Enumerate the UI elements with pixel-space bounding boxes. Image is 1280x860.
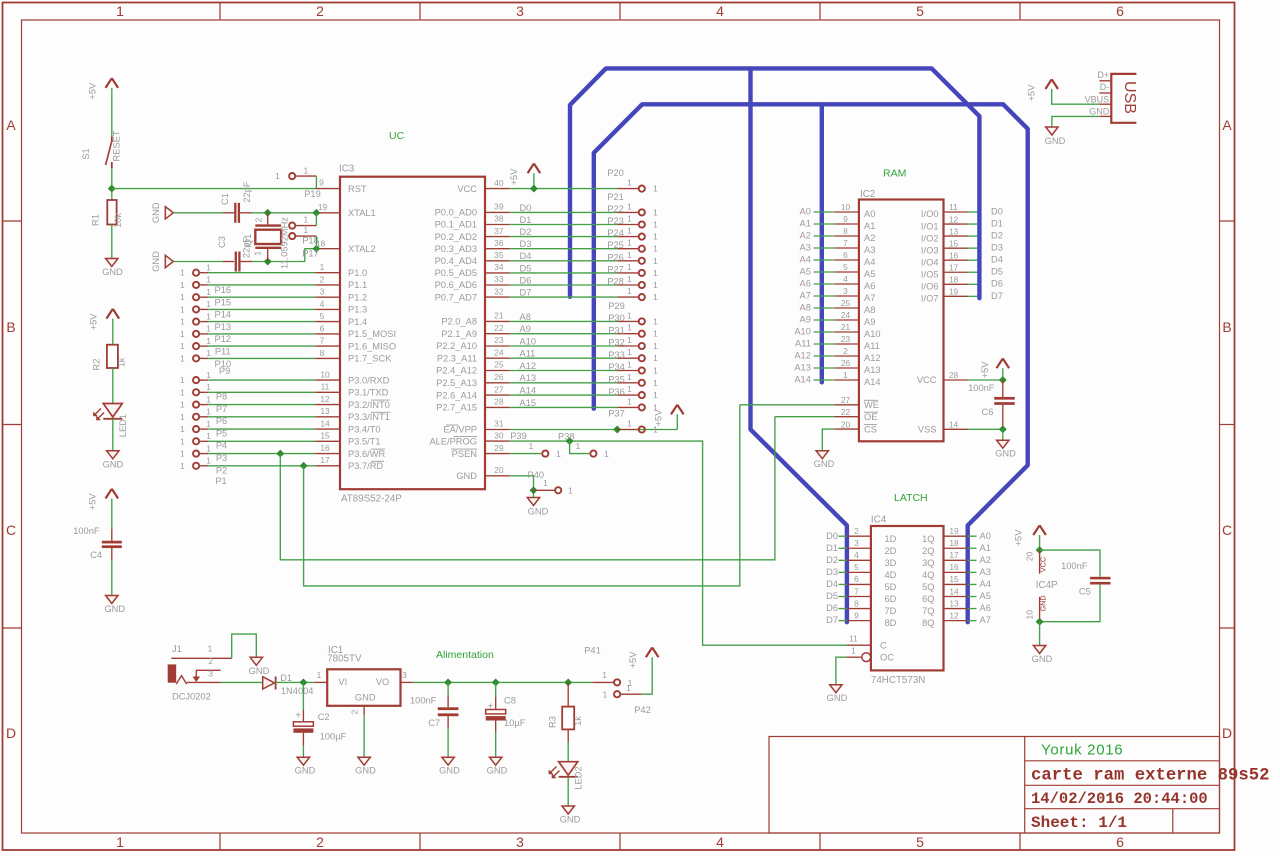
svg-text:+: + [487,701,493,712]
ram IC2 box [859,200,944,442]
svg-text:2: 2 [350,709,360,714]
svg-text:14: 14 [949,420,959,430]
svg-text:P1.5_MOSI: P1.5_MOSI [348,329,396,339]
svg-text:14: 14 [320,419,330,429]
svg-text:19: 19 [318,202,328,212]
svg-text:12: 12 [949,214,959,224]
power +5V arrow on VCC net [509,164,540,186]
svg-text:A12: A12 [520,361,537,371]
svg-text:P3.3/INT1: P3.3/INT1 [348,412,390,422]
diode D1 1N4004 [263,673,314,696]
svg-text:28: 28 [494,397,504,407]
IC3 value label AT89S52-24P [341,494,402,505]
svg-text:1: 1 [180,353,185,363]
svg-text:40: 40 [494,178,504,188]
junction ALE pad P38 branch [566,437,574,445]
svg-text:IC4: IC4 [871,515,887,526]
svg-text:P1.3: P1.3 [348,305,367,315]
svg-text:1: 1 [627,310,632,320]
IC3 pins 10-17 P3 stubs [316,370,341,466]
svg-text:I/O4: I/O4 [921,257,939,267]
svg-text:3: 3 [854,538,859,548]
svg-text:1D: 1D [885,534,897,544]
ground below IC4P [1032,646,1053,665]
svg-text:1: 1 [627,323,632,333]
svg-text:1: 1 [206,336,211,346]
svg-text:16: 16 [320,443,330,453]
svg-text:21: 21 [494,311,504,321]
svg-text:D: D [1222,725,1232,741]
svg-text:P2.7_A15: P2.7_A15 [436,403,477,413]
svg-text:1: 1 [653,316,658,326]
svg-text:P25: P25 [607,240,624,250]
LED1 [93,404,128,438]
svg-text:P2.5_A13: P2.5_A13 [436,378,477,388]
svg-text:A7: A7 [980,615,991,625]
svg-text:P0.3_AD3: P0.3_AD3 [435,244,477,254]
svg-text:20: 20 [841,419,851,429]
svg-text:GND: GND [151,202,161,223]
address bus branch to RAM A pins [820,104,824,382]
resistor R3 1k [548,682,583,761]
title block date [1031,790,1208,808]
svg-text:100nF: 100nF [968,383,995,393]
svg-text:A12: A12 [864,353,881,363]
svg-text:1: 1 [116,834,124,850]
svg-text:1: 1 [627,214,632,224]
op IC3 box AT89S52 [340,177,485,490]
svg-text:100nF: 100nF [1061,561,1088,571]
svg-text:1: 1 [206,263,211,273]
svg-text:A14: A14 [864,377,881,387]
wire RST to IC3 [112,188,316,190]
svg-text:A9: A9 [864,317,875,327]
pad P18 with wire to XTAL1 [289,213,319,246]
title block document name carte ram externe 89s52 [1031,767,1270,786]
svg-text:D4: D4 [826,579,838,589]
ground arrow left of C3 [151,251,174,272]
svg-text:P0.1_AD1: P0.1_AD1 [435,220,477,230]
IC4P label [1036,580,1058,591]
svg-text:VSS: VSS [918,425,937,435]
svg-text:1: 1 [627,286,632,296]
usb pin D- [1099,82,1111,93]
svg-text:2: 2 [254,217,264,222]
svg-text:1: 1 [851,646,856,656]
svg-text:1: 1 [180,341,185,351]
svg-text:P1.1: P1.1 [348,280,367,290]
RAM data pins I/O0-I/O7 with wires to bus [921,202,1003,303]
svg-text:GND: GND [355,692,376,702]
svg-text:RESET: RESET [112,130,122,161]
svg-text:P1.0: P1.0 [348,268,367,278]
svg-text:1: 1 [653,207,658,217]
svg-text:15: 15 [949,574,959,584]
svg-text:1: 1 [602,670,607,680]
svg-text:1: 1 [627,178,632,188]
svg-text:DCJ0202: DCJ0202 [172,691,211,701]
svg-text:GND: GND [355,766,376,776]
latch output pins 1Q-8Q with A bus wires [922,526,991,628]
svg-text:P2.2_A10: P2.2_A10 [436,341,477,351]
svg-text:GND: GND [151,251,161,272]
svg-text:10: 10 [1024,610,1034,620]
svg-text:15: 15 [320,431,330,441]
svg-text:A3: A3 [800,242,811,252]
svg-text:I/O5: I/O5 [921,269,939,279]
junction on P3.7/RD wire [300,462,308,470]
wire GND to C1 [173,212,223,214]
svg-text:3: 3 [208,668,213,678]
wire C4 to GND [111,548,113,596]
svg-text:D4: D4 [520,251,532,261]
svg-text:1: 1 [180,400,185,410]
section label Alimentation [436,649,494,661]
svg-text:A8: A8 [800,302,811,312]
svg-text:26: 26 [494,372,504,382]
svg-text:GND: GND [827,693,848,703]
svg-text:D1: D1 [991,218,1003,228]
svg-text:1: 1 [180,424,185,434]
svg-text:35: 35 [494,250,504,260]
svg-text:5: 5 [916,3,924,19]
svg-text:A11: A11 [795,338,811,348]
section label UC [389,130,405,142]
svg-text:29: 29 [494,443,504,453]
IC3 left pin names [348,184,396,471]
ground below C4 [104,596,125,615]
svg-text:6: 6 [854,574,859,584]
regulator IC1 7805TV [315,645,413,715]
svg-text:A13: A13 [864,365,881,375]
svg-text:D1: D1 [280,673,292,683]
wire EA to +5V [510,429,678,431]
svg-text:D3: D3 [520,239,532,249]
svg-text:36: 36 [494,238,504,248]
svg-text:7: 7 [320,336,325,346]
svg-text:P32: P32 [608,338,625,348]
resistor R1 10k [91,200,124,228]
svg-text:21: 21 [841,322,851,332]
ground below latch OC [827,685,848,704]
svg-text:GND: GND [1038,595,1047,611]
svg-text:CS: CS [864,424,877,434]
pad P20 [607,168,658,194]
svg-text:P0.4_AD4: P0.4_AD4 [435,256,477,266]
svg-text:P38: P38 [558,432,575,442]
svg-text:GND: GND [560,815,581,825]
svg-text:P7: P7 [216,404,227,414]
svg-text:1: 1 [180,292,185,302]
svg-text:38: 38 [494,214,504,224]
ground below IC1 [355,757,376,776]
svg-text:J1: J1 [172,644,182,654]
svg-text:1: 1 [206,275,211,285]
svg-text:A: A [6,117,16,133]
wire D1 to IC1 VI [276,681,315,683]
svg-text:A13: A13 [794,362,811,372]
ground below LED1 [103,451,124,470]
svg-text:31: 31 [494,419,504,429]
svg-text:XTAL1: XTAL1 [348,208,376,218]
svg-text:GND: GND [1045,136,1066,146]
svg-text:P1: P1 [215,476,226,486]
wire R2 to LED1 [112,368,114,404]
ground below C2 [295,757,316,776]
svg-text:1: 1 [627,262,632,272]
wire +5V arrow to VCC wire [533,173,535,188]
IC3 right pin stubs with numbers [485,178,510,476]
capacitor C2 100uF [293,682,346,757]
svg-text:+5V: +5V [1026,84,1036,102]
svg-text:C: C [880,641,887,651]
svg-text:1: 1 [653,366,658,376]
power +5V arrow above C4 [87,489,118,510]
svg-text:22pF: 22pF [242,181,252,203]
svg-text:1: 1 [626,683,631,693]
svg-text:WE: WE [864,400,879,410]
switch S1 RESET [81,130,122,168]
svg-text:1: 1 [206,394,211,404]
svg-text:1: 1 [653,232,658,242]
IC4 value label 74HCT573N [871,675,925,686]
svg-text:D0: D0 [520,203,532,213]
header pads P1-P16 with wires to IC3 P1/P3 pins [180,263,315,471]
svg-text:3D: 3D [885,558,897,568]
svg-text:P3.0/RXD: P3.0/RXD [348,375,390,385]
svg-text:+: + [295,710,301,721]
svg-text:25: 25 [841,298,851,308]
svg-text:6: 6 [843,250,848,260]
svg-text:C5: C5 [1079,587,1091,597]
svg-text:7: 7 [843,238,848,248]
svg-text:14/02/2016 20:44:00: 14/02/2016 20:44:00 [1031,790,1208,808]
svg-text:P1.4: P1.4 [348,317,367,327]
svg-text:1: 1 [180,268,185,278]
RAM address pins A0-A14 with wires to bus [794,202,880,387]
svg-text:24: 24 [841,310,851,320]
svg-text:20: 20 [1024,552,1034,562]
svg-text:S1: S1 [81,148,91,159]
svg-text:P35: P35 [608,375,625,385]
svg-text:D7: D7 [991,291,1003,301]
svg-text:A2: A2 [800,230,811,240]
svg-text:4: 4 [716,834,724,850]
IC3 right pin names [429,184,477,481]
svg-text:P16: P16 [215,285,232,295]
svg-text:26: 26 [841,358,851,368]
svg-text:1: 1 [653,244,658,254]
svg-text:A4: A4 [800,254,811,264]
IC3 name label [339,164,355,175]
svg-text:P11: P11 [215,347,231,357]
svg-text:11: 11 [849,634,858,644]
capacitor C3 22pF [217,236,252,271]
svg-text:6: 6 [320,323,325,333]
svg-text:VBUS: VBUS [1085,94,1110,104]
svg-text:5: 5 [320,311,325,321]
svg-text:4: 4 [854,550,859,560]
svg-text:D5: D5 [826,591,838,601]
svg-text:1: 1 [180,304,185,314]
svg-text:9: 9 [319,178,324,188]
svg-text:9: 9 [843,214,848,224]
svg-text:6Q: 6Q [922,594,934,604]
svg-text:USB: USB [1121,81,1138,114]
svg-text:1: 1 [627,238,632,248]
junction EA pad P37 [613,426,621,434]
power +5V arrow above S1 [87,78,118,99]
svg-text:P37: P37 [608,409,625,419]
svg-text:1: 1 [604,449,609,459]
svg-text:8Q: 8Q [922,618,934,628]
svg-text:GND: GND [456,471,477,481]
svg-text:Alimentation: Alimentation [436,649,494,661]
svg-text:1: 1 [627,201,632,211]
resistor R2 1k [92,345,127,371]
svg-text:1: 1 [206,431,211,441]
svg-text:+5V: +5V [87,82,97,100]
ground below LED2 [560,806,581,825]
svg-text:A10: A10 [520,336,537,346]
svg-text:GND: GND [249,666,270,676]
svg-text:OE: OE [864,412,877,422]
wire +5V to VBUS [1052,89,1100,104]
wire LED2 to GND [567,777,569,806]
wire PSEN to pad P39 [510,453,541,455]
svg-text:P23: P23 [607,216,624,226]
svg-text:2: 2 [854,526,859,536]
svg-text:A2: A2 [980,555,991,565]
ground arrow left of C1 [151,202,174,223]
svg-text:P3.6/WR: P3.6/WR [348,449,385,459]
svg-text:LED2: LED2 [573,766,583,789]
svg-text:12: 12 [949,610,959,620]
svg-text:23: 23 [841,334,851,344]
svg-text:1: 1 [206,419,211,429]
svg-text:OC: OC [880,653,894,663]
svg-text:2: 2 [316,3,324,19]
svg-text:8D: 8D [885,618,897,628]
ground below IC3 GND pin [527,498,548,517]
svg-text:I/O0: I/O0 [921,209,939,219]
svg-text:1: 1 [653,378,658,388]
svg-text:P3.7/RD: P3.7/RD [348,461,383,471]
ground below C8 [487,757,508,776]
ground below USB [1045,127,1066,146]
RAM VCC pin 28 [917,370,1003,385]
capacitor C7 100nF [410,682,458,757]
junction GND pad P40 branch [530,486,538,494]
junction pad P18 drop on XTAL1 [312,209,320,217]
svg-text:23: 23 [494,335,504,345]
svg-text:A14: A14 [794,374,811,384]
svg-text:P0.7_AD7: P0.7_AD7 [435,292,477,302]
svg-text:1: 1 [627,396,632,406]
RAM CS pin 20 [822,419,877,450]
svg-text:6: 6 [1116,834,1124,850]
pad P39 [510,431,561,459]
title block sheet [1031,814,1127,832]
svg-text:1: 1 [653,220,658,230]
svg-text:A5: A5 [864,269,875,279]
svg-text:VI: VI [338,677,347,687]
capacitor C8 10uF [486,682,526,757]
IC3 pins 1-8 P1 stubs [316,262,341,358]
svg-text:P30: P30 [608,313,625,323]
svg-text:I/O7: I/O7 [921,294,939,304]
svg-text:10k: 10k [113,213,123,228]
svg-text:27: 27 [841,395,851,405]
svg-text:5: 5 [843,262,848,272]
svg-text:4Q: 4Q [922,570,934,580]
junction VCC +5V [530,185,538,193]
svg-text:A12: A12 [794,350,811,360]
svg-text:5D: 5D [885,582,897,592]
svg-text:1: 1 [116,3,124,19]
ground below RAM VSS [995,440,1016,459]
svg-text:P27: P27 [607,264,624,274]
svg-text:14: 14 [949,586,959,596]
svg-text:1: 1 [206,370,211,380]
svg-text:GND: GND [103,459,124,469]
wire WR to RAM OE [280,417,775,560]
junction rail at C8 [492,678,500,686]
svg-text:1N4004: 1N4004 [281,686,314,696]
svg-text:P1.2: P1.2 [348,292,367,302]
wire IC4P GND down [1039,622,1041,646]
svg-text:+5V: +5V [87,493,97,511]
svg-text:P0.2_AD2: P0.2_AD2 [435,232,477,242]
junction RST node [108,185,116,193]
svg-text:P2.0_A8: P2.0_A8 [441,317,477,327]
svg-text:100µF: 100µF [320,732,347,742]
junction RAM VCC [999,376,1007,384]
pad P17 with wire to XTAL2 [289,225,319,259]
svg-text:1k: 1k [573,716,583,726]
svg-text:7Q: 7Q [922,606,934,616]
svg-text:2: 2 [320,274,325,284]
svg-text:1: 1 [627,274,632,284]
svg-text:19: 19 [949,526,959,536]
usb pin GND [1089,106,1111,116]
ground below R1 [102,259,123,278]
svg-text:P2.6_A14: P2.6_A14 [436,390,477,400]
svg-text:GND: GND [487,766,508,776]
junction on P3.6/WR wire [276,450,284,458]
ground at J1 pin1 [249,657,270,676]
wire IC1 GND down [363,715,365,757]
pad P38 [558,432,609,459]
wire J1 pin1 to GND [232,634,257,658]
IC4P VCC pin 20 [1024,550,1047,574]
latch IC4 box [871,526,944,670]
svg-text:GND: GND [295,766,316,776]
latch input pins 1D-8D with D bus wires [826,526,897,628]
svg-text:18: 18 [949,538,959,548]
junction crystal top on XTAL1 [264,209,272,217]
svg-text:7D: 7D [885,606,897,616]
svg-text:1: 1 [253,251,263,256]
svg-text:P31: P31 [608,325,625,335]
svg-text:Sheet: 1/1: Sheet: 1/1 [1031,814,1127,832]
svg-text:1: 1 [180,449,185,459]
svg-text:1: 1 [206,348,211,358]
svg-text:1: 1 [843,370,848,380]
capacitor C6 100nF [968,380,1015,429]
wire R1 to GND [111,225,113,259]
svg-text:UC: UC [389,130,405,142]
